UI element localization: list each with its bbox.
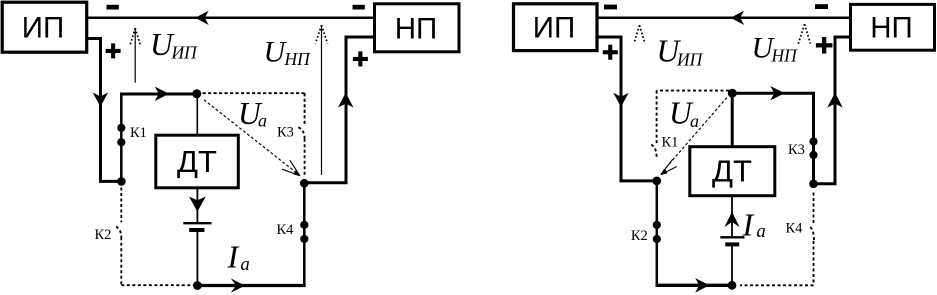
wire battery to bottom junction <box>196 232 198 286</box>
measurement arrow U_a right (dash-dot shaft) <box>661 98 727 174</box>
svg-text:a: a <box>690 111 699 131</box>
battery right: long plate <box>720 236 744 238</box>
wire junction to ДТ <box>196 95 198 135</box>
battery right: short thick plate <box>725 242 739 246</box>
contact K2 dots right <box>653 221 661 229</box>
svg-text:I: I <box>227 238 240 274</box>
junction dot bottom left <box>193 281 202 290</box>
wire ДТ to battery <box>196 188 198 222</box>
contact K3 dots right <box>809 137 817 145</box>
wire K1 branch vertical <box>120 94 123 181</box>
wire K4 branch left (vertical) <box>303 183 306 286</box>
wire battery to ДТ right <box>731 196 733 236</box>
svg-text:К4: К4 <box>277 222 295 238</box>
wire top bus right <box>597 17 850 20</box>
svg-text:I: I <box>742 206 755 242</box>
svg-text:ИП: ИП <box>533 12 575 45</box>
svg-text:К3: К3 <box>277 125 294 141</box>
arrow up on НП wire left <box>338 93 353 108</box>
svg-text:К2: К2 <box>95 227 112 243</box>
measurement arrowhead U_НП right <box>798 24 810 44</box>
wire top bus left <box>86 17 374 20</box>
svg-text:К4: К4 <box>786 221 804 237</box>
junction dot at K1 corner left <box>117 177 126 186</box>
arrow down to battery left <box>189 197 206 212</box>
svg-text:ИП: ИП <box>22 12 64 45</box>
label U_a right <box>669 96 699 132</box>
wire ИП+ down-right branch <box>597 37 657 181</box>
arrow up battery right <box>725 212 740 227</box>
battery left: long plate <box>183 222 211 224</box>
label I_a left <box>227 238 250 275</box>
wire junction to K3 corner right <box>732 93 813 184</box>
contact K4 dots left <box>300 221 308 229</box>
arrow down on ИП+ wire <box>93 93 108 107</box>
wire node to НП+ right <box>814 37 851 184</box>
block ДТ right <box>690 147 775 196</box>
node dot left <box>300 179 309 188</box>
label U_a left <box>238 96 267 131</box>
svg-text:К3: К3 <box>788 142 805 158</box>
block ДТ left <box>156 135 239 188</box>
battery left: short thick plate <box>189 228 204 232</box>
block НП (load) left <box>375 4 460 52</box>
switch K4 dashed path right <box>813 193 815 225</box>
svg-text:ИП: ИП <box>171 43 199 63</box>
arrow down on ИП+ wire right <box>613 93 628 107</box>
wire junction up to battery right <box>731 246 733 285</box>
svg-text:ДТ: ДТ <box>177 144 217 179</box>
block ИП (source) left <box>2 2 87 52</box>
label minus at ИП left <box>107 5 119 10</box>
measurement arrow U_a left barbs <box>282 160 300 175</box>
label minus at ИП right <box>604 5 617 10</box>
label U_НП right <box>752 32 799 66</box>
wire K1 branch horizontal to junction <box>120 93 197 96</box>
node dot right diagram left side <box>652 177 661 186</box>
arrow current on top bus left <box>195 11 209 25</box>
label minus at НП left <box>353 5 365 10</box>
label plus at НП right <box>816 37 833 54</box>
svg-text:НП: НП <box>395 13 438 46</box>
wire K2 branch right (vertical) <box>656 181 659 285</box>
svg-text:К1: К1 <box>130 125 147 141</box>
label U_ИП left <box>150 27 198 63</box>
label I_a right <box>742 206 766 242</box>
block НП (load) right <box>851 4 935 50</box>
measurement arrow U_ИП left <box>134 30 136 83</box>
block ИП (source) right <box>514 4 598 51</box>
arrow up on НП wire right <box>827 93 842 108</box>
label plus at ИП left <box>106 43 121 58</box>
switch K2 dashed path left <box>120 188 122 223</box>
svg-text:НП: НП <box>284 49 312 69</box>
label minus at НП right <box>815 4 828 9</box>
label plus at ИП right <box>603 45 618 60</box>
svg-text:К1: К1 <box>662 134 679 150</box>
arrow current on top bus right <box>731 11 745 25</box>
switch K1 dashed path right <box>657 91 729 144</box>
measurement arrow U_НП left <box>321 26 323 176</box>
wire ИП+ down-left branch <box>86 39 122 182</box>
switch K3 dashed path left <box>203 93 305 125</box>
wire bottom I_a left <box>197 284 305 287</box>
measurement arrow U_a right barbs <box>661 159 677 174</box>
svg-text:a: a <box>258 111 267 131</box>
svg-text:К2: К2 <box>631 228 648 244</box>
svg-text:НП: НП <box>870 12 913 45</box>
wire bottom right diagram <box>656 284 733 287</box>
measurement arrow U_a left (dash-dot shaft) <box>204 100 300 176</box>
arrow right on K1 wire <box>155 87 169 101</box>
node dot right <box>809 180 818 189</box>
contact K1 dots <box>117 124 125 132</box>
wire junction to ДТ right <box>731 94 734 147</box>
arrow right on top branch right <box>770 86 784 100</box>
arrow right I_a left <box>231 278 245 292</box>
svg-text:НП: НП <box>771 46 799 66</box>
junction dot top right diagram <box>728 89 737 98</box>
svg-text:a: a <box>757 222 766 242</box>
label U_НП left <box>264 36 312 70</box>
arrow right on bottom wire right <box>695 278 709 292</box>
junction node dot top left <box>192 89 201 98</box>
label U_ИП right <box>657 34 704 70</box>
svg-text:ДТ: ДТ <box>712 154 752 189</box>
svg-text:ИП: ИП <box>676 49 704 69</box>
measurement arrowhead U_ИП right <box>634 25 645 43</box>
svg-text:a: a <box>241 255 250 275</box>
label plus at НП left <box>353 51 368 66</box>
wire node to НП+ left <box>304 37 374 183</box>
junction dot bottom right <box>728 281 737 290</box>
